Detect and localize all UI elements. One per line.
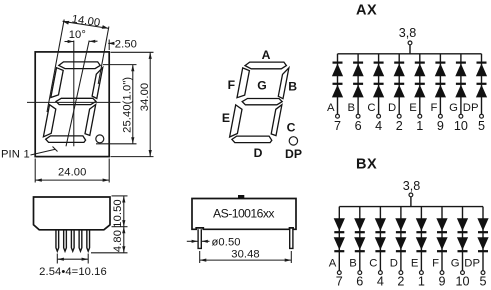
segment G outline (segment diagram): [242, 99, 282, 105]
wire segment B column: [359, 207, 361, 271]
svg-text:DP: DP: [285, 147, 302, 161]
svg-text:4: 4: [375, 119, 382, 133]
pin 3 (side view): [71, 230, 74, 251]
display body outline rectangle: [35, 52, 109, 157]
svg-text:F: F: [228, 78, 235, 92]
dimension line 10.50: [123, 196, 125, 227]
diode D1-C (upper, triangle down + cathode bar): [375, 218, 386, 231]
svg-text:1: 1: [24, 149, 30, 161]
dimension 2.50 arrow: [108, 40, 110, 51]
svg-text:10: 10: [454, 119, 468, 133]
segment F outline (segment diagram): [237, 68, 249, 98]
svg-text:30.48: 30.48: [231, 248, 260, 260]
diode D1-E (upper, cathode bar + triangle up): [415, 62, 425, 64]
wire segment A column: [337, 54, 339, 115]
diode D2-D (lower, cathode bar + triangle up): [394, 83, 404, 85]
diode D2-E (lower, triangle down + cathode bar): [416, 237, 427, 250]
segment C outline (front view): [85, 105, 96, 136]
decimal point circle (segment diagram): [289, 137, 297, 145]
dimension 14.00 extension line left: [47, 20, 64, 113]
diode D1-B (upper, cathode bar + triangle up): [353, 62, 363, 64]
pin terminal circle: [481, 271, 485, 275]
pin right (package view): [290, 229, 293, 248]
svg-text:B: B: [288, 80, 297, 94]
diode D2-F (lower, cathode bar + triangle up): [435, 83, 445, 85]
svg-text:3,8: 3,8: [403, 179, 421, 193]
svg-text:5: 5: [478, 119, 485, 133]
package body side outline: [34, 197, 111, 230]
svg-text:D: D: [388, 102, 396, 114]
pin terminal circle: [379, 271, 383, 275]
pin terminal circle: [377, 114, 381, 118]
diode D1-DP (upper, cathode bar + triangle up): [477, 62, 487, 64]
svg-text:2: 2: [397, 274, 404, 288]
svg-text:6: 6: [356, 274, 363, 288]
svg-text:AX: AX: [356, 3, 377, 19]
diode D1-A (upper, cathode bar + triangle up): [333, 62, 343, 64]
diode D1-G (upper, triangle down + cathode bar): [457, 218, 468, 231]
diode D2-D (lower, triangle down + cathode bar): [395, 237, 406, 250]
diode D2-B (lower, triangle down + cathode bar): [354, 237, 365, 250]
diode D2-G (lower, triangle down + cathode bar): [457, 237, 468, 250]
svg-text:10°: 10°: [69, 29, 86, 41]
svg-text:C: C: [369, 257, 377, 269]
dimension line 30.48: [200, 259, 292, 261]
svg-text:F: F: [432, 257, 439, 269]
segment B outline (front view): [92, 68, 103, 99]
wire segment D column: [400, 207, 402, 271]
dia 0.50 arrows: [187, 240, 198, 242]
diode D2-DP (lower, triangle down + cathode bar): [477, 237, 488, 250]
svg-text:3,8: 3,8: [399, 26, 417, 40]
diode D2-C (lower, triangle down + cathode bar): [375, 237, 386, 250]
decimal point circle (front view): [96, 135, 104, 143]
segment A outline (front view): [59, 62, 100, 69]
dimension 25.40 extension lines: [103, 64, 137, 66]
svg-text:G: G: [451, 257, 460, 269]
svg-text:6: 6: [355, 119, 362, 133]
pin terminal circle: [337, 271, 341, 275]
svg-text:34.00: 34.00: [139, 83, 151, 112]
dimension line 25.40: [132, 65, 134, 144]
pin 4 (side view): [79, 230, 82, 251]
diode D1-D (upper, cathode bar + triangle up): [394, 62, 404, 64]
wire segment F column: [441, 207, 443, 271]
wire segment E column: [419, 54, 421, 115]
dimension line 24.00: [35, 179, 109, 181]
dimension 2.54x4 extension lines: [56, 254, 58, 264]
pin terminal circle: [480, 114, 484, 118]
segment B outline (segment diagram): [278, 68, 289, 99]
svg-text:F: F: [430, 102, 437, 114]
common terminal circle: [409, 193, 413, 197]
svg-text:G: G: [449, 102, 458, 114]
pin left (package view): [198, 229, 201, 248]
segment D outline (segment diagram): [232, 136, 272, 143]
dimension 34.00 extension lines: [111, 51, 154, 53]
pin terminal circle: [439, 114, 443, 118]
svg-text:2.50: 2.50: [115, 39, 137, 51]
package body front outline: [192, 199, 296, 230]
svg-text:BX: BX: [356, 157, 377, 173]
diode D2-E (lower, cathode bar + triangle up): [415, 83, 425, 85]
diode D2-A (lower, cathode bar + triangle up): [333, 83, 343, 85]
diode D2-DP (lower, cathode bar + triangle up): [477, 83, 487, 85]
wire common bus: [339, 206, 483, 208]
diode D1-DP (upper, triangle down + cathode bar): [477, 218, 488, 231]
pin terminal circle: [459, 114, 463, 118]
svg-text:B: B: [348, 102, 356, 114]
wire segment D column: [398, 54, 400, 115]
pin terminal circle: [397, 114, 401, 118]
wire segment C column: [379, 207, 381, 271]
svg-text:25.40(1.0"): 25.40(1.0"): [121, 77, 133, 133]
svg-text:C: C: [287, 121, 296, 135]
svg-text:1: 1: [418, 274, 425, 288]
10 degree vertical reference line: [73, 41, 75, 147]
common terminal circle: [408, 41, 412, 45]
wire common stub: [410, 197, 412, 207]
diode D2-A (lower, triangle down + cathode bar): [334, 237, 345, 250]
diode D2-F (lower, triangle down + cathode bar): [436, 237, 447, 250]
diode D1-F (upper, cathode bar + triangle up): [435, 62, 445, 64]
svg-text:24.00: 24.00: [58, 166, 87, 178]
segment F outline (front view): [51, 68, 63, 98]
svg-text:E: E: [222, 111, 230, 125]
wire common stub: [409, 45, 411, 54]
wire segment DP column: [482, 207, 484, 271]
pin 2 (side view): [64, 230, 67, 251]
dimension line 4.80: [123, 227, 125, 253]
wire common bus: [338, 53, 482, 55]
svg-text:DP: DP: [464, 257, 480, 269]
svg-text:7: 7: [336, 274, 343, 288]
svg-text:7: 7: [334, 119, 341, 133]
svg-text:1: 1: [416, 119, 423, 133]
10 degree slanted line: [66, 41, 89, 147]
svg-text:A: A: [329, 257, 337, 269]
svg-text:A: A: [327, 102, 335, 114]
svg-text:2: 2: [396, 119, 403, 133]
svg-text:E: E: [411, 257, 419, 269]
diode D1-B (upper, triangle down + cathode bar): [354, 218, 365, 231]
pin terminal circle: [356, 114, 360, 118]
segment A outline (segment diagram): [245, 62, 286, 69]
10 degree arrows: [65, 41, 74, 43]
wire segment B column: [357, 54, 359, 115]
dimension line 14.00: [63, 21, 109, 28]
segment E outline (front view): [43, 105, 55, 137]
pin terminal circle: [420, 271, 424, 275]
svg-text:4.80: 4.80: [112, 230, 124, 252]
svg-text:E: E: [409, 102, 417, 114]
segment C outline (segment diagram): [271, 105, 282, 136]
svg-text:D: D: [390, 257, 398, 269]
PIN 1 leader line: [31, 149, 56, 155]
diode D1-C (upper, cathode bar + triangle up): [374, 62, 384, 64]
dimension 24.00 extension lines: [34, 159, 36, 183]
svg-text:PIN: PIN: [1, 149, 20, 161]
svg-text:B: B: [349, 257, 357, 269]
diode D1-F (upper, triangle down + cathode bar): [436, 218, 447, 231]
dimension line 2.54x4: [57, 258, 88, 260]
segment E outline (segment diagram): [230, 105, 242, 137]
segment D outline (front view): [46, 136, 86, 143]
dimension 14.00 extension line right: [98, 27, 109, 85]
wire segment C column: [378, 54, 380, 115]
pin terminal circle: [399, 271, 403, 275]
wire segment DP column: [481, 54, 483, 115]
diode D1-A (upper, triangle down + cathode bar): [334, 218, 345, 231]
wire segment E column: [420, 207, 422, 271]
svg-text:A: A: [262, 48, 271, 62]
mold tab on top edge: [238, 195, 244, 199]
svg-text:C: C: [367, 102, 375, 114]
diode D1-D (upper, triangle down + cathode bar): [395, 218, 406, 231]
wire segment G column: [460, 54, 462, 115]
svg-text:G: G: [257, 79, 266, 93]
diode D1-G (upper, cathode bar + triangle up): [456, 62, 466, 64]
diode D2-C (lower, cathode bar + triangle up): [374, 83, 384, 85]
pin terminal circle: [440, 271, 444, 275]
dimension line 34.00: [149, 52, 151, 156]
dimension 10.50 extension lines: [112, 195, 128, 197]
horizontal centerline through digit middle: [27, 101, 121, 103]
pin 1 (side view): [56, 230, 59, 251]
svg-text:AS-10016xx: AS-10016xx: [213, 207, 274, 221]
svg-text:D: D: [254, 146, 263, 160]
segment G outline (front view): [56, 98, 96, 104]
svg-text:2.54•4=10.16: 2.54•4=10.16: [39, 266, 107, 278]
svg-text:DP: DP: [463, 102, 479, 114]
pin terminal circle: [418, 114, 422, 118]
svg-text:10.50: 10.50: [112, 199, 124, 228]
diode D2-B (lower, cathode bar + triangle up): [353, 83, 363, 85]
svg-text:ø0.50: ø0.50: [212, 237, 241, 249]
pin 5 (side view): [87, 230, 90, 251]
svg-text:10: 10: [455, 274, 469, 288]
dimension 30.48 extension lines: [199, 251, 201, 263]
svg-text:4: 4: [377, 274, 384, 288]
svg-text:9: 9: [438, 274, 445, 288]
wire segment G column: [462, 207, 464, 271]
wire segment F column: [439, 54, 441, 115]
pin terminal circle: [461, 271, 465, 275]
svg-text:5: 5: [479, 274, 486, 288]
wire segment A column: [338, 207, 340, 271]
svg-text:9: 9: [437, 119, 444, 133]
diode D1-E (upper, triangle down + cathode bar): [416, 218, 427, 231]
diode D2-G (lower, cathode bar + triangle up): [456, 83, 466, 85]
pin terminal circle: [336, 114, 340, 118]
pin terminal circle: [358, 271, 362, 275]
